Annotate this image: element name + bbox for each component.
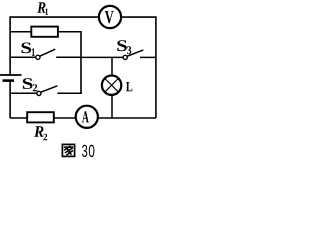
switch S1 <box>36 49 55 59</box>
switch S3 <box>123 50 143 60</box>
wire S1 branch left <box>10 56 36 58</box>
wire S2 branch right <box>57 92 81 94</box>
label S2 <box>23 78 37 91</box>
lamp L <box>102 76 121 95</box>
switch S2 <box>37 86 58 96</box>
resistor R1 <box>31 27 58 37</box>
label S3 <box>117 40 131 54</box>
wire S2 branch left <box>10 92 37 94</box>
wire R1 branch <box>10 31 81 33</box>
ammeter A <box>76 106 98 128</box>
wire lamp branch lower <box>111 95 113 118</box>
wire right vertical <box>155 16 157 118</box>
wire left vertical upper (to battery) <box>9 16 11 74</box>
label R2 <box>34 126 47 140</box>
label S1 <box>22 43 35 57</box>
voltmeter V <box>99 6 121 28</box>
wire S3 branch left <box>81 56 123 58</box>
wire S1 branch right <box>56 56 81 58</box>
wire middle vertical node <box>80 31 82 94</box>
caption number 30 <box>82 145 94 157</box>
resistor R2 <box>27 112 54 122</box>
wire S3 branch right <box>140 56 156 58</box>
battery cell short plate <box>3 79 15 82</box>
caption figure mark <box>62 144 74 156</box>
battery cell long plate <box>0 74 22 76</box>
wire top loop <box>10 16 156 18</box>
label R1 <box>37 2 48 15</box>
wire left vertical lower (from battery) <box>9 81 11 118</box>
label L <box>126 82 132 91</box>
wire bottom loop <box>10 117 156 119</box>
wire lamp branch upper <box>111 57 113 76</box>
